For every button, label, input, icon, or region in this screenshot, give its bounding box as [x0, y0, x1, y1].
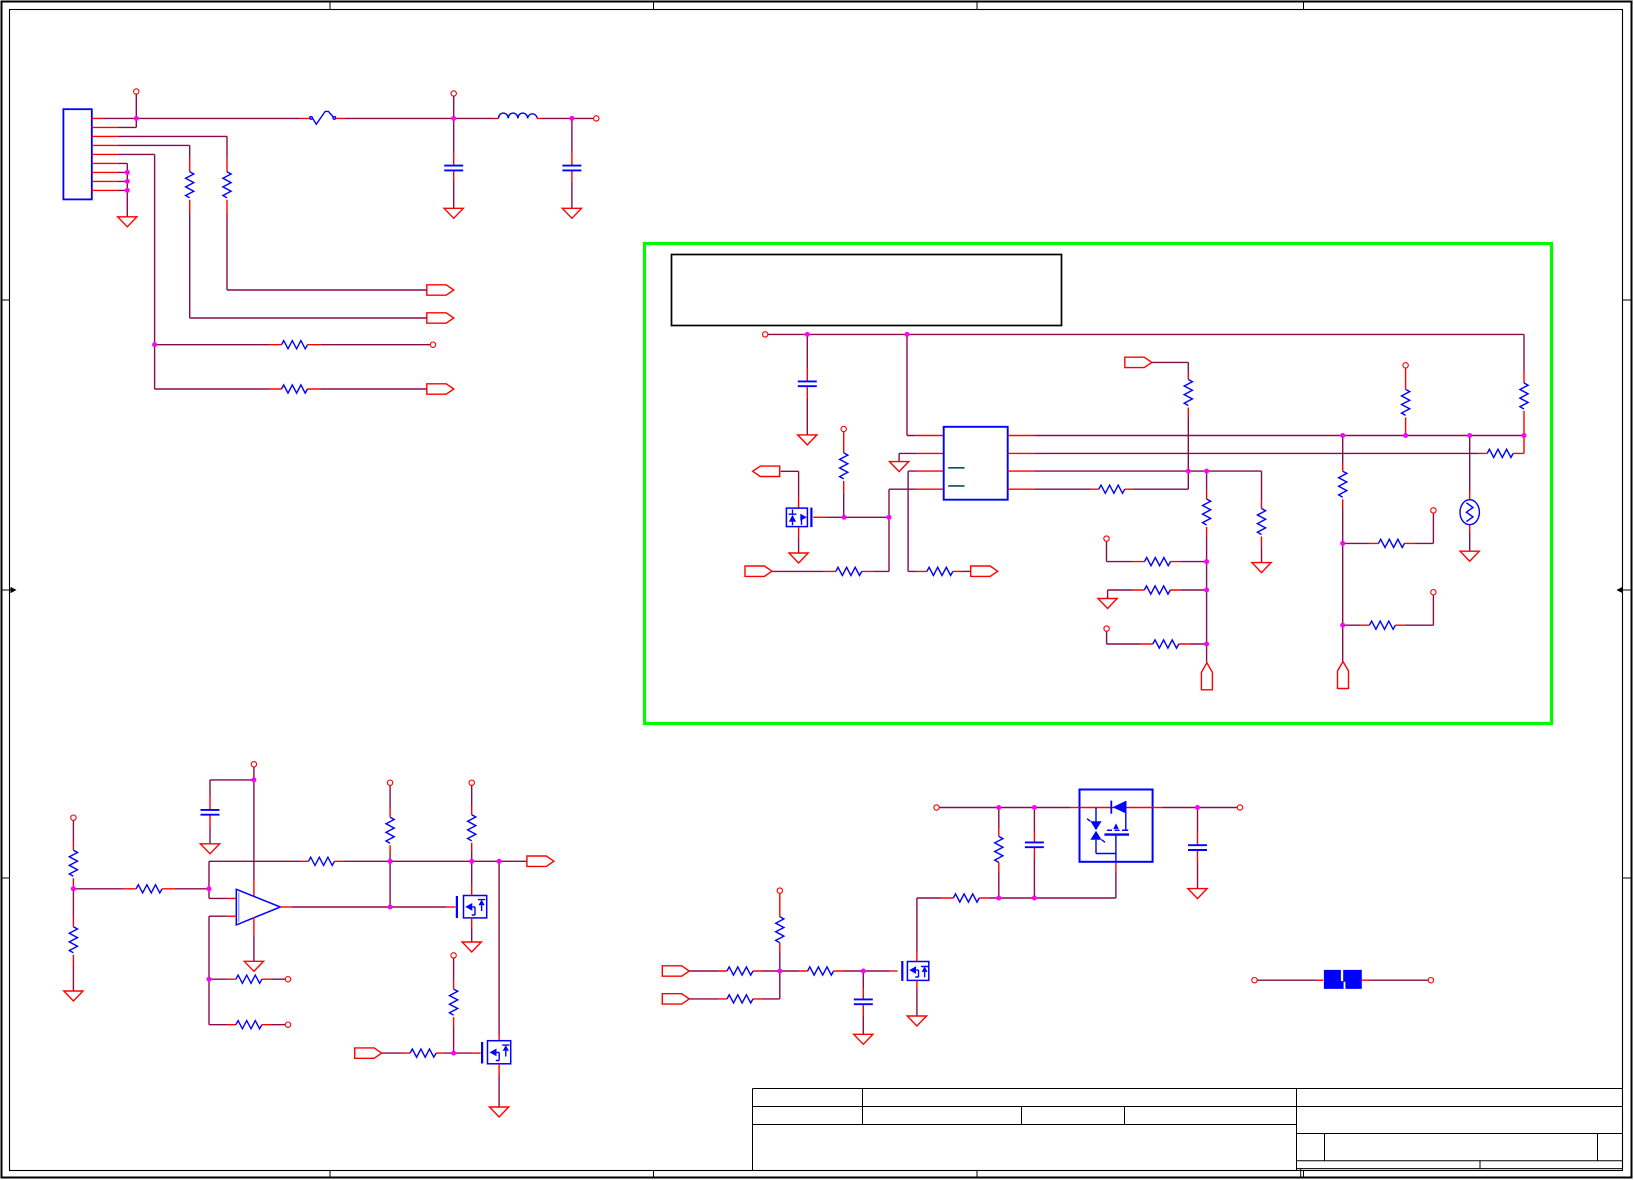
port P2	[427, 313, 454, 323]
port P10	[527, 856, 554, 866]
wire row to R3	[155, 344, 269, 346]
wire U1 pin3 run	[908, 471, 917, 571]
ground Q1	[789, 553, 808, 563]
wire R32 to gate node	[843, 970, 890, 972]
ground R22	[64, 991, 83, 1001]
right border tick marks	[1623, 300, 1633, 878]
wire R4 to port	[321, 388, 427, 390]
transistor Q4	[901, 961, 903, 981]
title block right rows	[1297, 1134, 1623, 1169]
thermistor RT1	[1469, 436, 1471, 493]
note text box	[672, 255, 1062, 326]
resistor R28	[469, 780, 474, 785]
wire U1 pin4 run	[874, 489, 916, 571]
node opamp V+ terminal	[251, 762, 256, 767]
port P13	[662, 994, 689, 1004]
resistor R11	[1187, 372, 1189, 417]
wire R31 to R32	[762, 970, 798, 972]
wire Q2 source to ground	[471, 929, 473, 942]
node fuse left terminal	[1252, 978, 1257, 983]
node rail terminal	[763, 332, 768, 337]
wire R10 to pin3 node	[1133, 471, 1188, 489]
resistor R5	[917, 570, 962, 572]
resistor R15	[1343, 542, 1369, 544]
title block row lines	[753, 1107, 1623, 1125]
wire R1 to port row	[227, 214, 427, 291]
resistor R32	[798, 970, 843, 972]
port P8	[1338, 662, 1349, 689]
wire V+ vertical	[253, 767, 255, 880]
node VOUT terminal	[594, 116, 599, 121]
ground C3	[798, 435, 817, 445]
transistor Q2	[456, 896, 458, 918]
wire row4 to R4	[155, 388, 269, 390]
wire row offset2	[209, 1024, 227, 1026]
title block outline	[753, 1089, 1623, 1171]
ground C1	[444, 208, 463, 218]
port P7	[1125, 357, 1152, 367]
resistor R10	[1091, 488, 1133, 490]
ground J1	[118, 217, 137, 227]
wire rail to U1 pin1	[907, 334, 915, 435]
inductor L1	[494, 117, 543, 119]
resistor R36	[998, 808, 1000, 829]
wire Q4 source ground	[916, 989, 918, 1017]
wire R33 joins node	[762, 971, 780, 999]
resistor R35	[941, 897, 989, 899]
port P12	[662, 966, 689, 976]
capacitor C7	[1197, 808, 1199, 833]
connector J1	[63, 109, 91, 199]
resistor R18	[1132, 561, 1181, 563]
wire R23 to opamp	[175, 861, 227, 898]
resistor R33	[718, 998, 762, 1000]
resistor R20	[1140, 643, 1190, 645]
node module output terminal	[1237, 805, 1242, 810]
port P4	[971, 566, 998, 576]
dual MOSFET module U3	[1080, 790, 1153, 862]
wire input row	[73, 888, 123, 890]
wire R29 to Q3 gate	[444, 1052, 472, 1054]
port P3	[427, 384, 454, 394]
right border center arrow	[1623, 589, 1632, 591]
op-amp U2	[236, 889, 280, 925]
wire top rail power	[939, 807, 1070, 809]
resistor R22	[72, 889, 74, 918]
resistor R30	[451, 953, 456, 958]
resistor R27	[387, 780, 392, 785]
wire pin2 to vertical	[118, 126, 136, 128]
ground C7	[1188, 889, 1207, 899]
capacitor C5	[862, 971, 864, 988]
resistor R9	[1261, 500, 1263, 546]
left border tick marks	[2, 300, 10, 878]
wire trunk mid stack	[1206, 536, 1208, 663]
wire terminal to rail	[453, 96, 455, 118]
J1 pin 9	[92, 189, 118, 191]
IC U1	[915, 436, 943, 490]
port P9	[1201, 663, 1212, 690]
wire to Q3 drain	[498, 861, 500, 1035]
J1 pin 2	[92, 126, 118, 128]
wire R3 to terminal	[321, 344, 430, 346]
wire to C4	[210, 780, 254, 797]
wire pin1 bus	[1035, 435, 1524, 437]
top border tick marks	[330, 2, 1304, 10]
wire P7 down	[1152, 362, 1189, 372]
capacitor C3	[806, 334, 808, 368]
resistor R2	[189, 158, 191, 214]
ground opamp	[244, 961, 263, 971]
wire R6 to port	[772, 570, 823, 572]
wire pins 6-9 common	[118, 163, 127, 216]
node C1 terminal	[451, 91, 456, 96]
ground U1 pin2	[890, 462, 909, 472]
node module input terminal	[934, 805, 939, 810]
wire Q4 drain up	[916, 898, 918, 952]
wire feedback row	[209, 860, 300, 862]
wire row1	[1107, 541, 1133, 561]
wire port to Q1 drain	[781, 471, 799, 497]
resistor R26	[227, 1024, 272, 1026]
wire fuse left	[1257, 979, 1317, 981]
resistor R25	[227, 978, 272, 980]
ground C5	[854, 1034, 873, 1044]
wire row2	[1108, 590, 1132, 599]
wire pin5 run	[118, 154, 155, 389]
fuse F2	[1324, 970, 1344, 989]
node offset2 terminal	[285, 1022, 290, 1027]
transistor Q1	[798, 497, 800, 538]
wire R5 to port	[962, 570, 971, 572]
port P1	[427, 285, 454, 295]
resistor R16	[1343, 624, 1360, 626]
wire pin3 run	[118, 136, 227, 158]
ground Q2	[462, 942, 481, 952]
wire gate row	[813, 516, 827, 518]
ground Q4	[907, 1016, 926, 1026]
wire input chain	[72, 821, 74, 843]
resistor R13	[1523, 334, 1525, 371]
J1 pin 3	[92, 135, 118, 137]
wire rail left	[103, 117, 300, 119]
J1 pin 1	[92, 117, 103, 119]
wire pin3 row	[1035, 471, 1262, 500]
resistor R24	[300, 860, 345, 862]
capacitor C6	[1033, 808, 1035, 832]
ground C2	[562, 208, 581, 218]
port P6	[753, 466, 780, 476]
resistor R14	[1342, 436, 1344, 464]
resistor R17	[1206, 490, 1208, 536]
resistor R31	[718, 970, 762, 972]
wire row3	[1107, 631, 1140, 644]
J1 pin 7	[92, 171, 118, 173]
wire fuse right	[1362, 979, 1369, 981]
J1 pin 6	[92, 162, 118, 164]
resistor R34	[777, 888, 782, 893]
wire mid row to module	[989, 872, 1116, 898]
resistor R21	[72, 842, 74, 889]
node input terminal	[71, 815, 76, 820]
resistor R19	[1132, 589, 1181, 591]
wire L1 to output terminal	[542, 117, 594, 119]
resistor R4	[269, 388, 321, 390]
resistor R23	[123, 888, 175, 890]
port P11	[355, 1048, 382, 1058]
resistor R7	[841, 426, 846, 431]
title block left column dividers	[863, 1089, 1125, 1125]
node row3 terminal	[1104, 626, 1109, 631]
ground row2	[1098, 599, 1117, 609]
ground C4	[200, 844, 219, 854]
wire pin2 row	[1035, 452, 1479, 454]
J1 pin 8	[92, 180, 118, 182]
ground Q3	[490, 1107, 509, 1117]
node terminal row3	[430, 342, 435, 347]
node offset1 terminal	[285, 977, 290, 982]
wire R2 to port row	[190, 214, 427, 319]
wire feedback to port	[390, 860, 527, 862]
wire opamp V- to ground	[253, 917, 255, 935]
J1 pin 4	[92, 144, 118, 146]
wire module output	[1153, 807, 1162, 809]
wire R9 to ground	[1261, 546, 1263, 563]
wire mid row	[917, 897, 941, 899]
node fuse right terminal	[1428, 978, 1433, 983]
node VIN terminal	[134, 89, 139, 94]
wire R22 to ground	[72, 965, 74, 991]
wire R16 to terminal	[1405, 595, 1433, 625]
wire P11 to R29	[382, 1052, 402, 1054]
wire row offset1	[209, 978, 227, 980]
bottom border tick marks	[330, 1171, 1304, 1178]
wire pin4 run	[118, 145, 190, 158]
wire Q1 source to ground	[798, 538, 800, 554]
wire P12 row	[689, 970, 718, 972]
left border center arrow	[2, 589, 11, 591]
wire pin1 stub to rail	[135, 94, 137, 127]
ground R9	[1252, 563, 1271, 573]
green highlight box	[645, 244, 1552, 724]
resistor R6	[823, 570, 874, 572]
capacitor C1	[453, 118, 455, 152]
capacitor C2	[571, 118, 573, 152]
resistor R3	[269, 344, 321, 346]
wire Q3 source ground	[498, 1075, 500, 1107]
title block right column dividers	[1301, 1134, 1598, 1178]
junction nodes	[134, 116, 139, 121]
J1 pin 5	[92, 153, 118, 155]
resistor R1	[226, 158, 228, 214]
wire R15 to terminal	[1415, 513, 1433, 543]
wire fuse to C1 node	[345, 117, 494, 119]
wire stack 1206	[1206, 471, 1208, 490]
node row1 terminal	[1104, 536, 1109, 541]
resistor R29	[402, 1052, 444, 1054]
ground RT1	[1460, 551, 1479, 561]
capacitor C4	[209, 797, 211, 827]
wire U1 pin2 to ground	[899, 453, 916, 461]
fuse F1	[300, 117, 345, 119]
resistor R8	[1479, 436, 1524, 454]
wire trunk left stack	[1342, 508, 1344, 662]
transistor Q3	[481, 1042, 483, 1064]
wire opamp output	[280, 906, 291, 908]
wire P13 row	[689, 998, 718, 1000]
wire top rail	[768, 333, 1524, 335]
wire pin4 row	[1035, 488, 1091, 490]
port P5	[745, 566, 772, 576]
wire R11 to pin3 row	[1187, 417, 1189, 471]
resistor R12	[1403, 363, 1408, 368]
wire opamp -in	[209, 916, 227, 1024]
